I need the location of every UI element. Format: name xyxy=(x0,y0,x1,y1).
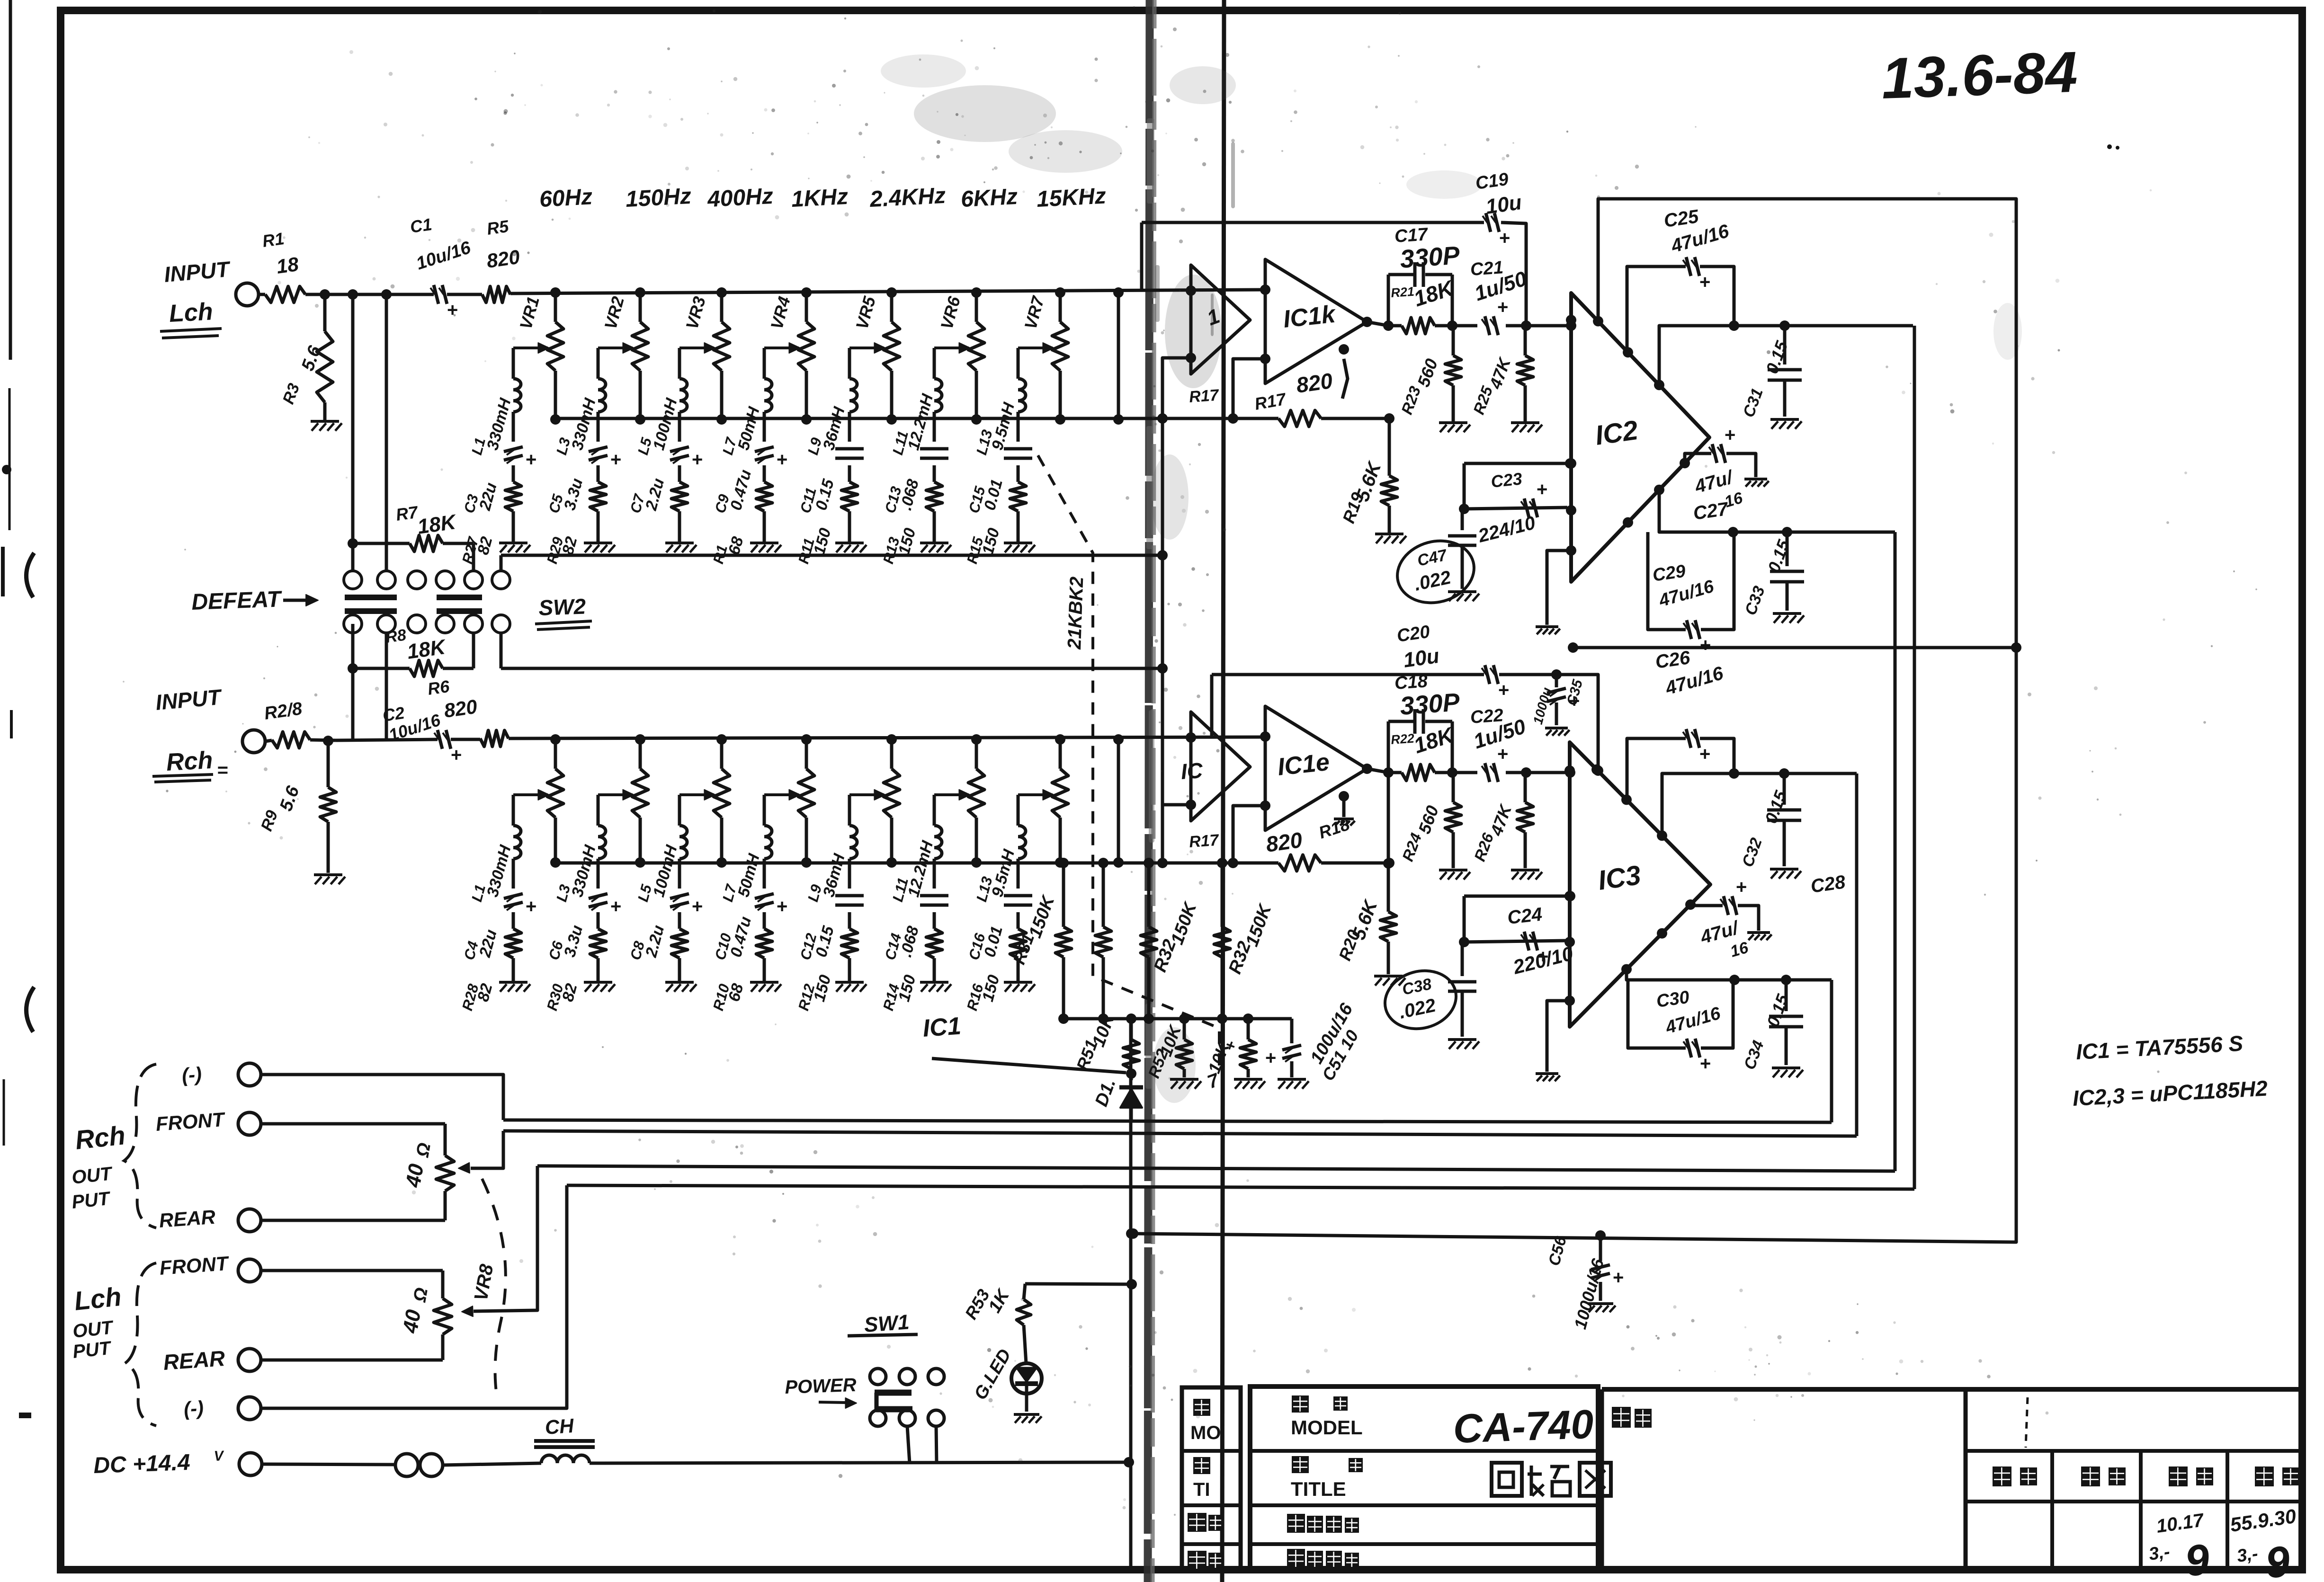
svg-text:IC: IC xyxy=(1180,758,1204,784)
svg-text:CA-740: CA-740 xyxy=(1452,1402,1594,1452)
svg-text:POWER: POWER xyxy=(785,1375,857,1398)
svg-text:+: + xyxy=(1497,744,1508,764)
svg-text:SW2: SW2 xyxy=(538,594,587,620)
svg-text:13.6-84: 13.6-84 xyxy=(1880,40,2078,111)
svg-text:C23: C23 xyxy=(1490,469,1523,491)
svg-text:+: + xyxy=(610,449,621,470)
svg-text:10u: 10u xyxy=(1402,644,1441,672)
svg-text:TI: TI xyxy=(1193,1479,1210,1500)
svg-text:9: 9 xyxy=(2182,1535,2212,1582)
svg-text:R22: R22 xyxy=(1390,731,1415,747)
svg-text:10u: 10u xyxy=(1484,191,1523,219)
svg-text:+: + xyxy=(1537,479,1547,500)
svg-text:1KHz: 1KHz xyxy=(791,184,849,212)
svg-text:+: + xyxy=(1699,272,1710,293)
svg-text:+: + xyxy=(1700,635,1711,656)
svg-text:IC3: IC3 xyxy=(1596,860,1643,896)
svg-text:330P: 330P xyxy=(1399,241,1461,274)
svg-text:+: + xyxy=(692,896,703,917)
svg-text:820: 820 xyxy=(1295,368,1334,398)
svg-text:OUT: OUT xyxy=(71,1163,114,1188)
svg-text:+: + xyxy=(526,449,536,470)
svg-text:+: + xyxy=(447,300,458,320)
svg-text:R7: R7 xyxy=(394,502,420,524)
svg-text:2.4KHz: 2.4KHz xyxy=(869,183,947,212)
svg-text:21KBK2: 21KBK2 xyxy=(1064,576,1087,650)
svg-text:820: 820 xyxy=(443,695,479,722)
svg-text:+: + xyxy=(777,896,787,917)
svg-text:820: 820 xyxy=(485,246,521,272)
svg-text:9: 9 xyxy=(2263,1537,2292,1582)
svg-text:R6: R6 xyxy=(426,676,451,699)
svg-text:(-): (-) xyxy=(181,1063,202,1086)
svg-text:Rch: Rch xyxy=(166,747,214,776)
svg-text:18: 18 xyxy=(275,253,300,278)
svg-text:+: + xyxy=(1613,1267,1624,1288)
svg-text:330P: 330P xyxy=(1399,688,1461,720)
svg-text:DEFEAT: DEFEAT xyxy=(191,587,283,615)
svg-text:CH: CH xyxy=(544,1414,575,1439)
svg-text:MODEL: MODEL xyxy=(1291,1416,1363,1439)
svg-text:3,-: 3,- xyxy=(2147,1542,2171,1564)
svg-text:Lch: Lch xyxy=(169,298,214,328)
svg-text:40: 40 xyxy=(401,1162,428,1190)
svg-text:REAR: REAR xyxy=(158,1206,216,1232)
svg-text:15KHz: 15KHz xyxy=(1036,183,1107,212)
svg-text:PUT: PUT xyxy=(71,1188,112,1212)
svg-text:+: + xyxy=(1736,877,1747,898)
svg-text:PUT: PUT xyxy=(72,1337,113,1362)
svg-text:+: + xyxy=(1497,297,1508,318)
svg-text:MO: MO xyxy=(1190,1422,1221,1443)
svg-text:IC1: IC1 xyxy=(922,1012,962,1042)
svg-text:SW1: SW1 xyxy=(863,1310,910,1337)
svg-text:60Hz: 60Hz xyxy=(539,184,593,212)
svg-text:+: + xyxy=(610,896,621,917)
svg-text:IC1k: IC1k xyxy=(1282,300,1338,333)
svg-text:DC +14.4: DC +14.4 xyxy=(93,1450,191,1478)
svg-text:+: + xyxy=(526,896,536,917)
svg-text:+: + xyxy=(451,745,462,765)
svg-text:R17: R17 xyxy=(1189,386,1220,406)
svg-text:R1: R1 xyxy=(261,229,285,251)
svg-text:+: + xyxy=(777,449,787,470)
svg-text:=: = xyxy=(217,760,228,781)
svg-text:+: + xyxy=(1699,744,1710,764)
svg-text:REAR: REAR xyxy=(162,1346,226,1375)
svg-text:40: 40 xyxy=(398,1308,425,1335)
svg-text:+: + xyxy=(692,449,703,470)
svg-text:+: + xyxy=(1725,425,1735,445)
svg-text:Lch: Lch xyxy=(73,1281,123,1316)
svg-text:400Hz: 400Hz xyxy=(706,184,774,212)
svg-text:6KHz: 6KHz xyxy=(960,184,1019,212)
svg-text:150Hz: 150Hz xyxy=(625,184,692,212)
svg-text:C24: C24 xyxy=(1506,904,1543,928)
svg-text:R21: R21 xyxy=(1390,284,1415,300)
svg-text:820: 820 xyxy=(1264,827,1304,857)
svg-text:(-): (-) xyxy=(183,1396,204,1420)
svg-text:R17: R17 xyxy=(1189,831,1220,851)
svg-text:C1: C1 xyxy=(409,214,433,237)
svg-text:IC2: IC2 xyxy=(1593,415,1640,451)
svg-text:3,-: 3,- xyxy=(2235,1544,2259,1566)
svg-text:TITLE: TITLE xyxy=(1291,1478,1346,1500)
svg-text:+: + xyxy=(1499,228,1510,249)
svg-text:Rch: Rch xyxy=(74,1120,127,1155)
svg-text:+: + xyxy=(1498,680,1509,701)
svg-text:IC1e: IC1e xyxy=(1276,748,1331,781)
svg-text:+: + xyxy=(1265,1048,1276,1068)
svg-text:+: + xyxy=(1700,1053,1711,1074)
